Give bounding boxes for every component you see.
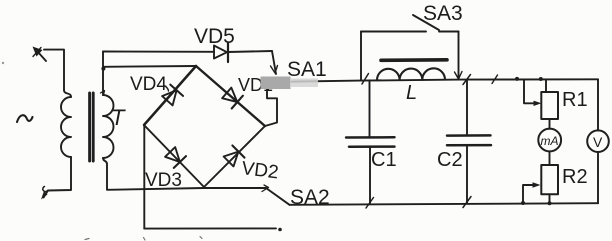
svg-text:V: V: [593, 134, 603, 150]
wire bottom bus: [290, 203, 599, 205]
stray dot left edge: [2, 62, 4, 64]
diode VD3: [165, 147, 186, 168]
junction dot R1 top tap: [539, 77, 543, 81]
diode VD5: [214, 43, 228, 62]
wire mA to R2: [549, 151, 551, 165]
wire from top terminal to primary: [44, 50, 64, 90]
junction tick left of inductor: [362, 74, 369, 85]
svg-text:C2: C2: [437, 149, 463, 171]
ammeter mA: [538, 129, 561, 152]
svg-text:R2: R2: [562, 166, 588, 188]
diode VD1: [222, 88, 243, 109]
svg-text:R1: R1: [562, 89, 588, 111]
inductor L core bar: [381, 58, 447, 62]
transformer secondary winding: [102, 69, 104, 95]
capacitor C1 bottom wire: [369, 147, 371, 204]
voltmeter V top wire: [597, 79, 599, 130]
bridge edge top-right: [196, 66, 265, 126]
switch SA3 loop right vertical: [458, 32, 460, 79]
voltmeter V bottom wire: [597, 152, 599, 203]
junction dot end of bottom bus: [278, 228, 282, 232]
switch SA1 blade: [272, 51, 276, 74]
switch SA2 wire from bridge bottom vertex: [204, 187, 266, 189]
input terminal arrow bottom-left: [41, 187, 48, 200]
junction tick C1 bottom: [366, 198, 374, 209]
junction dot R2 wiper bottom: [521, 201, 525, 205]
wire VD5 cathode to SA1 top: [228, 51, 272, 52]
switch SA3 blade: [413, 15, 439, 30]
voltmeter V: [587, 130, 609, 152]
capacitor C2 plates: [447, 134, 491, 137]
wire bridge right vertex jog up to SA1 contact: [265, 84, 277, 126]
wire bottom negative bus: [144, 227, 276, 229]
svg-text:VD2: VD2: [240, 158, 279, 183]
wire main top bus: [268, 79, 598, 82]
wire node to VD5 line: [102, 52, 104, 70]
inductor L coil: [377, 68, 445, 80]
transformer primary winding: [64, 90, 71, 97]
capacitor C2 top wire: [466, 80, 468, 136]
bridge edge bottom-left: [144, 125, 204, 187]
junction tick C2 bottom: [463, 197, 471, 208]
resistor R2 wiper arrow: [523, 182, 541, 203]
wire VD5 anode line: [103, 51, 214, 53]
junction tick on bus x495: [492, 75, 498, 84]
switch SA3 loop left vertical: [360, 32, 362, 81]
capacitor C1 plates: [346, 136, 395, 139]
wire primary bottom: [48, 157, 71, 191]
stray mark bottom left: [85, 239, 89, 240]
stray mark bottom: [200, 237, 202, 239]
diode VD2: [224, 146, 245, 167]
smudge artifact over VD1 wire: [261, 77, 291, 90]
diode VD4: [162, 85, 183, 106]
bridge edge bottom-right: [204, 126, 265, 187]
transformer core: [88, 93, 91, 161]
switch SA2 blade: [266, 188, 290, 205]
switch SA3 top wire left: [361, 31, 426, 33]
junction dot R2 bottom: [548, 201, 552, 205]
svg-text:VD4: VD4: [130, 74, 167, 95]
node A junction dot (secondary top): [101, 67, 105, 71]
stray mark bottom center: [144, 238, 146, 241]
svg-text:L: L: [406, 82, 417, 104]
capacitor C2 bottom wire: [466, 145, 468, 203]
resistor R1 top lead: [545, 79, 547, 92]
svg-text:SA1: SA1: [287, 58, 327, 81]
switch SA3 top wire right: [439, 31, 459, 33]
svg-text:VD5: VD5: [194, 25, 235, 48]
svg-text:SA3: SA3: [423, 2, 463, 25]
bridge edge top-left: [144, 66, 196, 125]
capacitor C1 top wire: [369, 80, 371, 137]
junction dot R1 wiper tap: [515, 77, 519, 81]
input terminal arrow top-left: [33, 47, 47, 62]
wire bridge left vertex down: [143, 125, 145, 229]
resistor R1 wiper arrow: [524, 79, 542, 106]
resistor R2 bottom lead: [549, 194, 551, 203]
resistor R2 body: [541, 165, 558, 194]
svg-text:C1: C1: [371, 149, 397, 171]
junction tick right of inductor / C2 tap: [463, 75, 471, 85]
svg-text:mA: mA: [541, 134, 559, 148]
wire secondary bottom to bridge bottom node: [103, 158, 204, 190]
resistor R1 body: [541, 92, 558, 119]
wire node to bridge top vertex: [104, 65, 196, 68]
svg-text:T: T: [111, 105, 126, 130]
AC tilde symbol: [17, 115, 33, 122]
wire R1 to mA meter: [549, 119, 551, 129]
svg-text:VD3: VD3: [145, 170, 182, 191]
